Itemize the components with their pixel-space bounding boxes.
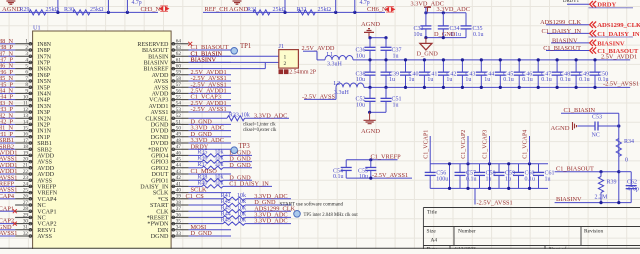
wire net CH8_P pin 2: [0, 49, 15, 51]
svg-text:C1_VCAP4: C1_VCAP4: [0, 193, 15, 200]
svg-text:C1_BIASOUT: C1_BIASOUT: [597, 48, 639, 55]
svg-text:CLK: CLK: [156, 209, 169, 215]
U1 pin 52 CLKSEL: [171, 117, 189, 119]
U1 pin 24 VREFP: [15, 185, 32, 187]
wire pin 36: [189, 216, 223, 218]
U1 pin 17 SRB1: [15, 142, 32, 144]
svg-text:55: 55: [176, 95, 182, 101]
U1 pin 64 RESERVED: [171, 43, 189, 45]
wire up: [107, 0, 109, 12]
svg-text:53: 53: [176, 107, 182, 113]
wire net C1_VREFP pin 24: [0, 185, 15, 187]
svg-text:25: 25: [23, 188, 29, 194]
U1 pin 7 IN5N: [15, 80, 32, 82]
svg-text:DOUT: DOUT: [151, 172, 168, 178]
svg-text:VCAP1: VCAP1: [37, 209, 56, 215]
net label 3.3VD_ADC: [245, 198, 291, 200]
capacitor C?? 4.7p lead: [353, 11, 356, 14]
svg-text:21: 21: [23, 163, 29, 169]
wire pin 61: [189, 61, 231, 63]
wire top chain1: [0, 11, 158, 13]
U1 pin 43 DOUT: [171, 173, 189, 175]
svg-text:AGND: AGND: [229, 6, 248, 13]
U1 pin 20 AVSS: [15, 161, 32, 163]
svg-text:R30: R30: [64, 7, 74, 13]
svg-text:CLKSEL: CLKSEL: [145, 116, 168, 122]
svg-text:DVDD: DVDD: [151, 141, 169, 147]
svg-text:14: 14: [23, 119, 29, 125]
svg-text:L1: L1: [327, 52, 334, 58]
svg-text:43: 43: [176, 169, 182, 175]
svg-text:3.3uH: 3.3uH: [327, 62, 343, 68]
svg-text:VREFP: VREFP: [37, 185, 57, 191]
svg-text:19: 19: [23, 150, 29, 156]
capacitor C47: [537, 60, 539, 72]
U1 pin 62 BIASIN: [171, 55, 189, 57]
wire net CH7_P pin 4: [0, 61, 15, 63]
svg-text:3.3uH: 3.3uH: [334, 90, 350, 96]
U1 pin 2 IN8P: [15, 49, 32, 51]
U1 pin 35 *PWDN: [171, 223, 189, 225]
U1 pin 37 CLK: [171, 210, 189, 212]
svg-text:3.3VD_ADC: 3.3VD_ADC: [437, 6, 470, 13]
J1 comment 2.54mm 2P header: [279, 69, 284, 74]
capacitor C46: [518, 60, 520, 72]
svg-text:24: 24: [23, 181, 29, 187]
wire pin 35: [189, 223, 223, 225]
capacitor C43: [461, 60, 463, 72]
svg-text:10k: 10k: [237, 205, 246, 211]
svg-text:64: 64: [176, 39, 182, 45]
power port AGND below C52: [369, 112, 371, 120]
capacitor C54: [345, 160, 347, 168]
svg-text:3.3VD_ADC: 3.3VD_ADC: [254, 218, 287, 225]
capacitor C37: [385, 38, 387, 48]
capacitor C44: [480, 60, 482, 72]
wire net CH2_P pin 14: [0, 123, 15, 125]
wire net CH4_N pin 9: [0, 92, 15, 94]
wire pin 52: [189, 117, 227, 119]
svg-text:470p: 470p: [627, 187, 639, 193]
svg-text:0: 0: [625, 158, 628, 164]
net label 3.3VD_ADC: [245, 216, 291, 218]
capacitor C60: [518, 164, 520, 173]
test point TP5: [294, 211, 301, 218]
wire pin 47: [189, 148, 231, 150]
capacitor C42: [442, 60, 444, 72]
svg-text:CH3_N: CH3_N: [141, 6, 161, 13]
capacitor C45: [499, 60, 501, 72]
svg-text:11: 11: [23, 101, 28, 107]
svg-text:61: 61: [176, 57, 182, 63]
wire pin 42: [189, 179, 202, 181]
U1 pin 34 DIN: [171, 229, 189, 231]
wire up from R29/R30 node: [57, 0, 59, 12]
svg-text:Number: Number: [458, 229, 476, 235]
sheet bottom border: [0, 247, 640, 249]
svg-text:Title: Title: [427, 210, 438, 216]
wire C1_VREFP: [346, 159, 397, 161]
svg-text:31: 31: [23, 225, 29, 231]
svg-text:44: 44: [176, 163, 182, 169]
wire pin63 to TP1: [189, 49, 231, 51]
wire net CH2_N pin 13: [0, 117, 15, 119]
U1 pin 21 AVDD: [15, 167, 32, 169]
svg-text:IN6N: IN6N: [37, 67, 51, 73]
capacitor C35: [465, 13, 467, 26]
svg-text:GPIO4: GPIO4: [151, 154, 168, 160]
wire pin 53: [189, 111, 231, 113]
capacitor C38: [369, 60, 371, 72]
svg-text:Revision: Revision: [584, 229, 603, 235]
U1 pin 45 GPIO3: [171, 161, 189, 163]
svg-text:C1_BIASOUT: C1_BIASOUT: [543, 45, 581, 52]
U1 pin 14 IN2P: [15, 123, 32, 125]
U1 pin 32 AVSS: [15, 235, 32, 237]
svg-text:54: 54: [176, 101, 182, 107]
net label D_GND: [223, 161, 252, 163]
U1 pin 59 AVDD: [171, 74, 189, 76]
svg-text:33: 33: [176, 231, 182, 237]
svg-text:ADS1299_CLK: ADS1299_CLK: [540, 19, 581, 26]
wire pin 54: [189, 105, 231, 107]
port underline: [589, 7, 634, 9]
U1 pin 47 *DRDY: [171, 148, 189, 150]
svg-text:41: 41: [176, 181, 182, 187]
svg-text:IN5N: IN5N: [37, 79, 51, 85]
U1 pin 41 DAISY_IN: [171, 185, 189, 187]
svg-text:BIASINV: BIASINV: [556, 196, 582, 203]
svg-text:IN1N: IN1N: [37, 129, 51, 135]
svg-text:TP1: TP1: [240, 43, 251, 50]
U1 pin 46 GPIO4: [171, 154, 189, 156]
wire J1 pin2 stub: [265, 61, 279, 63]
svg-text:C1_DAISY_IN: C1_DAISY_IN: [541, 28, 581, 35]
svg-text:2: 2: [25, 45, 28, 51]
svg-text:C1_CS: C1_CS: [186, 193, 205, 200]
U1 pin 6 IN6P: [15, 74, 32, 76]
wire pin 57: [189, 86, 231, 88]
port BIASINV: [590, 40, 596, 46]
svg-text:GPIO1: GPIO1: [151, 178, 168, 184]
net label D_GND: [223, 154, 252, 156]
svg-text:C1_VCAP2: C1_VCAP2: [461, 130, 467, 159]
svg-text:SRB1: SRB1: [37, 141, 52, 147]
svg-text:VCAP3: VCAP3: [149, 98, 168, 104]
U1 pin 19 AVDD: [15, 154, 32, 156]
svg-text:1u: 1u: [389, 77, 395, 83]
wire net CH1_P pin 16: [0, 136, 15, 138]
U1 pin 55 VCAP3: [171, 99, 189, 101]
wire net 2.5V_AVDD1 pin 21: [0, 167, 15, 169]
wire pin 51: [189, 123, 231, 125]
svg-text:-2.5V_AVSS1: -2.5V_AVSS1: [0, 230, 17, 237]
capacitor C55: [370, 160, 372, 168]
svg-text:BIASOUT: BIASOUT: [142, 48, 169, 54]
U1 pin 27 NC: [15, 204, 32, 206]
svg-text:IN7N: IN7N: [37, 54, 51, 60]
U1 pin 60 BIASREF: [171, 68, 189, 70]
svg-text:BIASINV: BIASINV: [597, 40, 625, 47]
test point TP3: [231, 147, 238, 154]
svg-text:*DRDY: *DRDY: [148, 147, 169, 153]
wire up: [284, 0, 286, 12]
svg-text:C1_DAISY_IN: C1_DAISY_IN: [229, 181, 269, 188]
capacitor C58: [479, 164, 481, 173]
wire to C1_VCAP4 label: [529, 136, 531, 164]
U1 pin 25 VREFN: [15, 192, 32, 194]
capacitor C62 470p: [630, 172, 632, 186]
U1 pin 16 IN1P: [15, 136, 32, 138]
wire pin 59: [189, 74, 231, 76]
svg-text:0.1u: 0.1u: [598, 77, 609, 83]
wire pin 48: [189, 142, 231, 144]
port underline: [589, 36, 634, 38]
svg-text:28: 28: [23, 206, 29, 212]
svg-text:D_GND: D_GND: [229, 162, 251, 169]
svg-text:NC: NC: [37, 203, 45, 209]
U1 pin 18 SRB2: [15, 148, 32, 150]
svg-text:DGND: DGND: [151, 234, 169, 240]
svg-text:10k: 10k: [215, 162, 224, 168]
svg-text:BIASREF: BIASREF: [143, 67, 169, 73]
svg-text:BIASINV: BIASINV: [144, 61, 169, 67]
svg-text:R34: R34: [624, 139, 634, 145]
capacitor C61: [538, 164, 540, 173]
svg-text:50: 50: [176, 126, 182, 132]
net label D_GND: [245, 204, 291, 206]
svg-text:0.1u: 0.1u: [541, 77, 552, 83]
U1 pin 56 AVDD: [171, 92, 189, 94]
svg-text:IN5P: IN5P: [37, 85, 50, 91]
svg-text:START: START: [150, 203, 169, 209]
wire pin 58: [189, 80, 231, 82]
wire net CH3_N pin 11: [0, 105, 15, 107]
capacitor C34: [442, 13, 444, 26]
wire C1_BIASOUT: [555, 171, 619, 173]
wire net C1_VCAP4 pin 26: [0, 198, 15, 200]
wire rail1 +2.5V: [353, 59, 630, 61]
svg-text:IN6P: IN6P: [37, 73, 50, 79]
port CH6_N: [385, 7, 389, 12]
U1 pin 51 DGND: [171, 123, 189, 125]
wire to port C1_DAISY_IN: [547, 32, 590, 34]
U1 pin 31 RESV1: [15, 229, 32, 231]
svg-text:R39: R39: [607, 180, 617, 186]
svg-text:26: 26: [23, 194, 29, 200]
node junction: [283, 11, 286, 14]
U1 pin 8 IN5P: [15, 86, 32, 88]
wire pin 43: [189, 173, 231, 175]
U1 pin 29 NC: [15, 216, 32, 218]
svg-text:1u: 1u: [409, 77, 415, 83]
svg-text:VCAP2: VCAP2: [37, 222, 56, 228]
svg-text:1u: 1u: [446, 77, 452, 83]
capacitor C39: [385, 60, 387, 72]
svg-text:*RESET: *RESET: [147, 216, 169, 222]
U1 pin 30 VCAP2: [15, 223, 32, 225]
svg-text:29: 29: [23, 212, 29, 218]
svg-text:32: 32: [23, 231, 29, 237]
capacitor C53 (NC): [586, 125, 595, 127]
capacitor C57: [459, 164, 461, 173]
capacitor C36: [369, 38, 371, 48]
svg-text:D_GND: D_GND: [191, 230, 213, 237]
port C1_BIASOUT: [590, 47, 596, 53]
U1 pin 3 IN7N: [15, 55, 32, 57]
svg-text:IN7P: IN7P: [37, 61, 50, 67]
wire net C1_VCAP1 pin 28: [0, 210, 15, 212]
wire pin 41: [189, 185, 202, 187]
svg-text:17: 17: [23, 138, 29, 144]
U1 pin 48 DVDD: [171, 142, 189, 144]
wire VCAP row to -2.5V_AVSS1 label: [474, 188, 476, 204]
capacitor C51: [385, 87, 387, 98]
port CH3_N: [159, 6, 163, 11]
U1 pin 40 SCLK: [171, 192, 189, 194]
svg-text:49: 49: [176, 132, 182, 138]
U1 pin 15 IN1N: [15, 130, 32, 132]
svg-text:BIASINV: BIASINV: [552, 37, 578, 44]
wire net CH6_N pin 5: [0, 68, 15, 70]
wire pin 37: [189, 210, 223, 212]
resistor R34 0ohm: [616, 139, 621, 157]
wire top chain2: [203, 11, 385, 13]
svg-text:58: 58: [176, 76, 182, 82]
wire net CH7_N pin 3: [0, 55, 15, 57]
U1 pin 22 AVDD: [15, 173, 32, 175]
wire pin60 corner: [189, 68, 266, 70]
svg-text:10k: 10k: [237, 199, 246, 205]
svg-text:30: 30: [23, 219, 29, 225]
svg-text:C1_VCAP1: C1_VCAP1: [424, 130, 430, 159]
port ADS1299_CLK: [590, 22, 596, 28]
capacitor C59: [498, 164, 500, 173]
svg-text:10u: 10u: [356, 102, 365, 108]
wire pin 40: [189, 192, 231, 194]
svg-text:BIASINV: BIASINV: [191, 57, 217, 64]
svg-text:57: 57: [176, 82, 182, 88]
wire pin 46: [189, 154, 202, 156]
svg-text:1u: 1u: [393, 53, 399, 59]
svg-text:AVDD: AVDD: [37, 166, 54, 172]
svg-text:IN1P: IN1P: [37, 135, 50, 141]
svg-text:42: 42: [176, 175, 182, 181]
svg-text:1: 1: [284, 55, 287, 61]
svg-text:DAISY_IN: DAISY_IN: [140, 185, 169, 191]
svg-text:-2.5V_AVSS1: -2.5V_AVSS1: [372, 172, 408, 179]
wire net 2.5V_AVDD1 pin 22: [0, 173, 15, 175]
svg-text:10k: 10k: [241, 112, 250, 118]
wire pin 55: [189, 99, 231, 101]
svg-text:7: 7: [25, 76, 28, 82]
wire net -2.5V_AVSS1 pin 32: [0, 235, 15, 237]
U1 pin 39 *CS: [171, 198, 189, 200]
svg-text:10k: 10k: [215, 174, 224, 180]
svg-text:0.1u: 0.1u: [579, 77, 590, 83]
svg-text:C62: C62: [627, 180, 637, 186]
svg-text:10k: 10k: [215, 150, 224, 156]
test point TP1: [231, 48, 238, 55]
svg-text:62: 62: [176, 51, 182, 57]
wire pin 39: [189, 198, 223, 200]
wire pin 63: [189, 49, 231, 51]
svg-text:18: 18: [23, 144, 29, 150]
wire rail2 -2.5V: [364, 86, 630, 88]
svg-text:10: 10: [23, 95, 29, 101]
net label D_GND: [223, 167, 252, 169]
U1 pin 1 IN8N: [15, 43, 32, 45]
no-ERC marker: [13, 209, 17, 213]
wire net CH4_P pin 10: [0, 99, 15, 101]
svg-text:1: 1: [25, 39, 28, 45]
wire to C1_VCAP2 label: [467, 136, 469, 164]
wire 3.3VD_ADC rail: [426, 12, 466, 14]
wire 2.5V_AVDD to L1: [303, 50, 317, 52]
wire net SRB1 pin 17: [0, 142, 15, 144]
wire net -2.5V_AVSS1 pin 20: [0, 161, 15, 163]
svg-text:IN2P: IN2P: [37, 123, 50, 129]
connector J1 body: [279, 50, 299, 69]
U1 pin 4 IN7P: [15, 61, 32, 63]
svg-text:DIN: DIN: [158, 228, 169, 234]
svg-text:RESV1: RESV1: [37, 228, 56, 234]
svg-text:59: 59: [176, 70, 182, 76]
svg-text:AVDD: AVDD: [37, 172, 54, 178]
wire bias vertical: [618, 113, 620, 202]
op-amp U1 ADS1299 body: [33, 31, 172, 250]
svg-text:A4: A4: [431, 238, 438, 244]
net label D_GND: [223, 179, 252, 181]
svg-text:1u: 1u: [484, 77, 490, 83]
svg-text:1u: 1u: [427, 77, 433, 83]
svg-text:10u: 10u: [356, 77, 365, 83]
wire net CH8_N pin 1: [0, 43, 15, 45]
wire pin 45: [189, 161, 202, 163]
svg-text:10u: 10u: [359, 174, 368, 180]
wire net 2.5V_AVDD1 pin 19: [0, 154, 15, 156]
svg-text:D_GND: D_GND: [434, 31, 456, 38]
svg-text:0.1u: 0.1u: [503, 77, 514, 83]
title block border: [423, 208, 640, 250]
svg-text:AVDD1: AVDD1: [149, 104, 169, 110]
svg-text:clksel=1,inter clk: clksel=1,inter clk: [243, 122, 276, 127]
wire to C1_VCAP3 label: [489, 136, 491, 164]
svg-text:IN8P: IN8P: [37, 48, 50, 54]
wire net CH3_P pin 12: [0, 111, 15, 113]
svg-text:0.1u: 0.1u: [522, 77, 533, 83]
capacitor C32 4.7p lead: [126, 11, 129, 14]
U1 pin 12 IN3P: [15, 111, 32, 113]
svg-text:9: 9: [25, 88, 28, 94]
wire pin 62: [189, 55, 231, 57]
svg-text:AVDD: AVDD: [152, 73, 169, 79]
svg-text:CH6_N: CH6_N: [367, 6, 387, 13]
svg-text:AGND: AGND: [361, 128, 380, 135]
svg-text:10u: 10u: [356, 53, 365, 59]
U1 pin 13 IN2N: [15, 117, 32, 119]
capacitor C41: [423, 60, 425, 72]
svg-text:AGND: AGND: [551, 125, 570, 132]
power port AGND (chain2): [233, 0, 242, 2]
U1 pin 26 VCAP4: [15, 198, 32, 200]
wire net CH6_P pin 6: [0, 74, 15, 76]
svg-text:DRDY1: DRDY1: [563, 0, 580, 4]
svg-text:VREFN: VREFN: [37, 191, 58, 197]
svg-text:IN3N: IN3N: [37, 104, 51, 110]
wire -2.5V_AVSS1 under VREFP caps: [346, 177, 412, 179]
wire net SRB2 pin 18: [0, 148, 15, 150]
